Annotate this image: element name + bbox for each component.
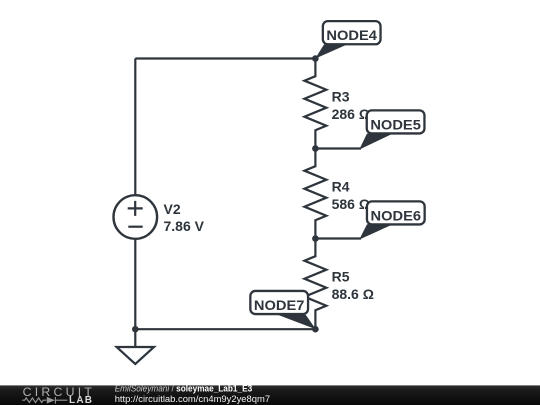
svg-text:88.6 Ω: 88.6 Ω bbox=[332, 286, 374, 302]
wire top rail bbox=[135, 57, 315, 59]
svg-text:NODE6: NODE6 bbox=[371, 208, 422, 223]
node B junction R3/R4 bbox=[312, 145, 319, 152]
resistor R3 bbox=[304, 59, 326, 149]
svg-text:V2: V2 bbox=[164, 201, 181, 217]
svg-text:R3: R3 bbox=[332, 88, 350, 104]
svg-text:R4: R4 bbox=[332, 178, 350, 194]
svg-text:7.86 V: 7.86 V bbox=[164, 218, 205, 234]
wire bottom rail bbox=[135, 328, 315, 330]
node NODE6 flag bbox=[315, 201, 424, 239]
svg-text:LAB: LAB bbox=[69, 395, 92, 405]
wire left rail lower bbox=[134, 239, 136, 329]
svg-text:http://circuitlab.com/cn4m9y2y: http://circuitlab.com/cn4m9y2ye8qm7 bbox=[115, 394, 270, 405]
svg-text:286 Ω: 286 Ω bbox=[332, 106, 370, 122]
wire left rail upper bbox=[134, 59, 136, 196]
resistor R5 bbox=[304, 239, 326, 330]
node NODE7 flag bbox=[250, 291, 315, 329]
svg-text:NODE5: NODE5 bbox=[370, 117, 421, 132]
node C junction R4/R5 bbox=[312, 235, 319, 242]
ground bbox=[134, 329, 136, 347]
resistor R4 bbox=[304, 149, 326, 239]
svg-text:EmilSoleymani / soleymae_Lab1_: EmilSoleymani / soleymae_Lab1_E3 bbox=[115, 383, 253, 393]
voltage source V2 bbox=[114, 195, 158, 239]
footer bar bbox=[0, 385, 540, 405]
CircuitLab logo resistor-diode glyph bbox=[22, 397, 67, 404]
svg-text:586 Ω: 586 Ω bbox=[332, 196, 370, 212]
node E junction bottom left bbox=[132, 326, 139, 333]
node NODE5 flag bbox=[315, 110, 424, 149]
svg-text:R5: R5 bbox=[332, 268, 350, 284]
svg-text:NODE4: NODE4 bbox=[326, 28, 377, 43]
node A junction top bbox=[312, 55, 319, 62]
node D junction bottom right bbox=[312, 326, 319, 333]
node NODE4 flag bbox=[315, 21, 380, 58]
svg-text:NODE7: NODE7 bbox=[254, 298, 305, 313]
